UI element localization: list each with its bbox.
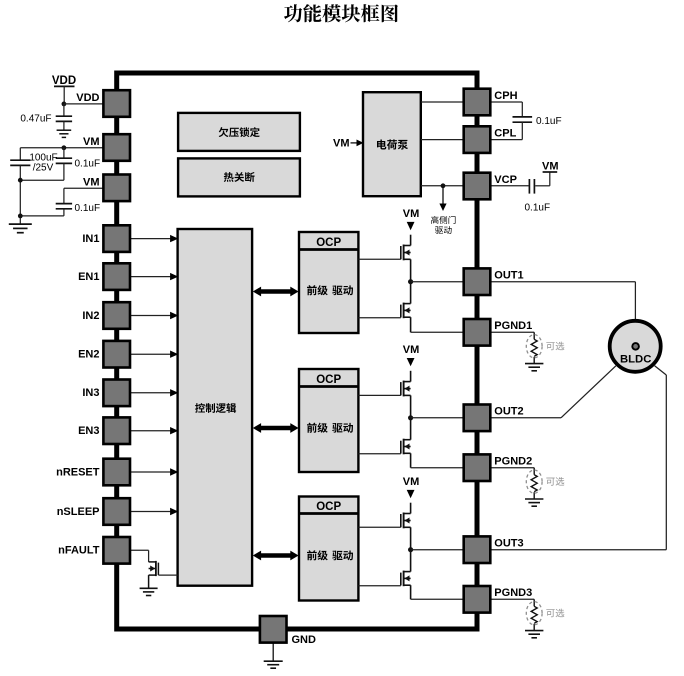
wire OUT3 node to pin bbox=[411, 549, 464, 551]
wire gate low-side Q2 bbox=[358, 317, 400, 319]
svg-text:VM: VM bbox=[403, 208, 420, 220]
wire OUT1 to motor bbox=[490, 282, 635, 320]
label 可选 2 bbox=[546, 477, 564, 486]
motor BLDC M1 bbox=[610, 321, 661, 372]
block thermal shutdown 热关断 bbox=[178, 158, 300, 196]
wire VM1 to C3 bbox=[63, 148, 65, 158]
svg-text:/25V: /25V bbox=[33, 162, 54, 173]
wire PGND3 to pin bbox=[411, 598, 464, 600]
capacitor C2 100uF/25V bbox=[10, 160, 30, 165]
wire VM2 to C4 bbox=[64, 188, 104, 203]
pin EN3 bbox=[78, 417, 130, 444]
svg-text:VDD: VDD bbox=[52, 75, 76, 87]
wire VDD to C1 bbox=[63, 104, 65, 116]
pin nRESET bbox=[56, 459, 130, 486]
wire OUT3 to motor bbox=[490, 366, 666, 550]
transistor Q1 high-side NMOS bbox=[401, 235, 411, 282]
wire EN3 to control logic bbox=[130, 427, 178, 434]
wire C2 to ground rail bbox=[19, 165, 21, 223]
svg-text:OUT3: OUT3 bbox=[494, 538, 523, 550]
pin CPL bbox=[464, 126, 517, 153]
wire EN2 to control logic bbox=[130, 351, 178, 358]
VM supply arrow bridge 1 bbox=[403, 208, 420, 230]
svg-text:VDD: VDD bbox=[76, 92, 99, 104]
wire PGND1 to R1 bbox=[490, 331, 534, 333]
wire PGND1 to pin bbox=[411, 331, 464, 333]
wire VM bulk rail bbox=[20, 148, 103, 160]
label 100uF/25V bbox=[29, 153, 57, 174]
svg-text:EN1: EN1 bbox=[78, 271, 99, 283]
wire gate low-side Q4 bbox=[358, 453, 400, 455]
block control logic 控制逻辑 bbox=[178, 229, 253, 586]
capacitor 0.1uF VCP bbox=[529, 179, 534, 194]
pin EN1 bbox=[78, 263, 130, 290]
block pre-driver 3 OCP/前级驱动 bbox=[299, 497, 358, 601]
wire C4 to ground rail bbox=[20, 209, 64, 216]
pin PGND1 bbox=[464, 319, 533, 346]
ground at GND pin bbox=[264, 661, 283, 668]
node OUT1 bbox=[408, 279, 413, 284]
svg-text:0.1uF: 0.1uF bbox=[536, 116, 562, 127]
svg-text:nRESET: nRESET bbox=[56, 466, 100, 478]
svg-text:VM: VM bbox=[403, 476, 420, 488]
block pre-driver 2 OCP/前级驱动 bbox=[299, 369, 358, 472]
svg-text:0.1uF: 0.1uF bbox=[75, 158, 101, 169]
capacitor C3 0.1uF bbox=[56, 158, 72, 163]
title 功能模块框图 bbox=[284, 4, 398, 22]
wire OUT2 node to pin bbox=[411, 417, 464, 419]
svg-text:VM: VM bbox=[83, 176, 100, 188]
svg-text:CPL: CPL bbox=[494, 127, 516, 139]
wire gate high-side Q3 bbox=[358, 394, 400, 396]
wire flying cap to CPL bbox=[490, 122, 522, 139]
VDD supply rail bbox=[52, 75, 76, 104]
pin VM bbox=[83, 134, 130, 161]
node OUT2 bbox=[408, 415, 413, 420]
capacitor C4 0.1uF bbox=[56, 204, 72, 209]
resistor R1 optional bbox=[525, 332, 543, 371]
wire nSLEEP to control logic bbox=[130, 508, 178, 515]
label 可选 1 bbox=[546, 342, 564, 351]
wire charge pump to CPH bbox=[421, 101, 464, 103]
node OUT3 bbox=[408, 547, 413, 552]
pin IN3 bbox=[82, 380, 130, 407]
wire gate high-side Q5 bbox=[358, 526, 400, 528]
VM supply arrow bridge 3 bbox=[403, 476, 420, 498]
block pre-driver 1 OCP/前级驱动 bbox=[299, 232, 358, 333]
transistor Q5 high-side NMOS bbox=[401, 503, 411, 550]
svg-text:IN1: IN1 bbox=[82, 233, 99, 245]
VM supply arrow bridge 2 bbox=[403, 344, 420, 366]
pin nSLEEP bbox=[57, 498, 130, 525]
svg-text:VM: VM bbox=[333, 138, 350, 150]
pin IN2 bbox=[82, 302, 130, 329]
pin OUT1 bbox=[464, 268, 524, 295]
wire GND to ground bbox=[272, 629, 274, 661]
pin nFAULT bbox=[58, 537, 130, 564]
transistor Q6 low-side NMOS bbox=[401, 550, 411, 600]
wire IN2 to control logic bbox=[130, 312, 178, 319]
pin VDD bbox=[76, 90, 130, 117]
pin OUT3 bbox=[464, 536, 524, 563]
label 可选 3 bbox=[546, 609, 564, 618]
IC boundary U1 bbox=[117, 73, 477, 629]
wire nRESET to control logic bbox=[130, 468, 178, 475]
bus arrow control-logic to pre-driver 1 bbox=[253, 287, 299, 297]
ground at C1 bbox=[57, 130, 72, 137]
pin PGND3 bbox=[464, 586, 533, 613]
svg-text:0.1uF: 0.1uF bbox=[525, 203, 551, 214]
node VDD bbox=[62, 102, 67, 107]
VM rail at VCP bbox=[542, 160, 559, 172]
svg-text:OCP: OCP bbox=[316, 501, 341, 513]
svg-text:OCP: OCP bbox=[316, 374, 341, 386]
resistor R3 optional bbox=[525, 599, 543, 638]
svg-text:PGND2: PGND2 bbox=[494, 456, 532, 468]
svg-text:CPH: CPH bbox=[494, 90, 517, 102]
bus arrow control-logic to pre-driver 2 bbox=[253, 423, 299, 433]
wire nFAULT to Q7 bbox=[130, 550, 149, 562]
wire CPH to flying cap bbox=[490, 102, 522, 117]
block UVLO 欠压锁定 bbox=[178, 113, 300, 151]
svg-text:OCP: OCP bbox=[316, 237, 341, 249]
svg-text:VM: VM bbox=[403, 344, 420, 356]
pin GND bbox=[260, 616, 316, 646]
transistor Q3 high-side NMOS bbox=[401, 371, 411, 418]
transistor Q4 low-side NMOS bbox=[401, 418, 411, 468]
node ground junction 1 bbox=[18, 178, 23, 183]
svg-text:PGND1: PGND1 bbox=[494, 320, 532, 332]
svg-text:OUT1: OUT1 bbox=[494, 270, 523, 282]
wire PGND3 to R3 bbox=[490, 598, 534, 600]
pin IN1 bbox=[82, 225, 130, 252]
svg-text:BLDC: BLDC bbox=[620, 353, 651, 365]
svg-text:VM: VM bbox=[83, 136, 100, 148]
wire gate high-side Q1 bbox=[358, 258, 400, 260]
wire C3 to ground rail bbox=[20, 163, 64, 180]
wire IN1 to control logic bbox=[130, 235, 178, 242]
wire gate low-side Q6 bbox=[358, 585, 400, 587]
svg-text:IN3: IN3 bbox=[82, 387, 99, 399]
wire C1 to ground bbox=[63, 121, 65, 129]
svg-text:VCP: VCP bbox=[494, 174, 517, 186]
wire EN1 to control logic bbox=[130, 273, 178, 280]
svg-text:GND: GND bbox=[292, 634, 317, 646]
bus arrow control-logic to pre-driver 3 bbox=[253, 551, 299, 561]
node VM1 bbox=[62, 145, 67, 150]
arrow high-side gate drive 高侧门驱动 bbox=[431, 187, 455, 234]
wire charge pump to CPL bbox=[421, 139, 464, 141]
svg-text:VM: VM bbox=[542, 160, 559, 172]
wire PGND2 to pin bbox=[411, 467, 464, 469]
pin PGND2 bbox=[464, 454, 533, 481]
svg-text:IN2: IN2 bbox=[82, 310, 99, 322]
wire OUT1 node to pin bbox=[411, 281, 464, 283]
pin VM bbox=[83, 175, 130, 202]
svg-text:OUT2: OUT2 bbox=[494, 406, 523, 418]
node high-side gate drive tap bbox=[441, 183, 446, 188]
pin OUT2 bbox=[464, 405, 524, 432]
svg-text:PGND3: PGND3 bbox=[494, 587, 532, 599]
wire IN3 to control logic bbox=[130, 389, 178, 396]
pin VCP bbox=[464, 173, 517, 200]
svg-text:EN3: EN3 bbox=[78, 425, 99, 437]
svg-text:nSLEEP: nSLEEP bbox=[57, 506, 100, 518]
ground main left bbox=[9, 224, 32, 233]
transistor Q2 low-side NMOS bbox=[401, 282, 411, 333]
wire charge pump to VCP bbox=[421, 185, 464, 187]
wire VDD rail to pin bbox=[64, 103, 104, 105]
wire PGND2 to R2 bbox=[490, 467, 534, 469]
resistor R2 optional bbox=[525, 468, 543, 507]
wire VCP to cap bbox=[490, 185, 528, 187]
svg-text:0.47uF: 0.47uF bbox=[20, 113, 51, 124]
wire OUT2 to motor bbox=[490, 366, 616, 418]
pin EN2 bbox=[78, 341, 130, 368]
block charge pump 电荷泵 bbox=[363, 92, 421, 196]
wire cap to VM rail bbox=[535, 172, 550, 186]
capacitor C1 0.47uF bbox=[56, 116, 72, 121]
ground at Q7 source bbox=[140, 588, 158, 595]
node ground junction 2 bbox=[18, 214, 23, 219]
VM input label to charge pump bbox=[333, 138, 364, 150]
svg-text:nFAULT: nFAULT bbox=[58, 545, 100, 557]
svg-text:0.1uF: 0.1uF bbox=[75, 203, 101, 214]
svg-text:EN2: EN2 bbox=[78, 349, 99, 361]
capacitor 0.1uF CPH-CPL bbox=[513, 117, 533, 122]
pin CPH bbox=[464, 89, 518, 116]
transistor Q7 nFAULT open-drain bbox=[149, 561, 178, 588]
